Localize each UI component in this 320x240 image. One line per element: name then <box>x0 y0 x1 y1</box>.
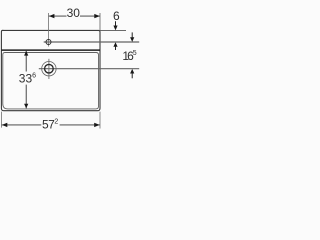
dimension 30 left arrow <box>49 14 55 18</box>
dimension 6 top arrow (down) <box>113 26 117 31</box>
extension line right of dim 30 <box>99 13 101 30</box>
drain inner circle (thick) <box>45 64 54 73</box>
dimension 57.2 line segments <box>2 124 42 126</box>
svg-text:30: 30 <box>67 6 81 20</box>
dimension 33.6 line upper segment <box>25 51 27 72</box>
washbasin outer outline <box>1 30 100 110</box>
drain leader line <box>39 68 139 70</box>
dimension 16.5 top arrow (down) <box>130 37 134 42</box>
dimension 30 line segments <box>49 15 67 17</box>
dimension 57.2 right arrow <box>94 123 100 127</box>
dimension 33.6 top arrow (up) <box>24 51 28 56</box>
tap hole circle <box>46 40 51 45</box>
top edge extension line (right) <box>100 29 126 31</box>
dimension 57.2 left arrow <box>2 123 8 127</box>
tap hole leader line <box>44 41 140 43</box>
dim 57.2 extension line left <box>1 112 3 128</box>
dimension 16.5 bottom arrow (up) <box>130 69 134 74</box>
dimension 6 bottom arrow (up) <box>113 42 117 47</box>
tap deck front edge (thick line) <box>1 49 100 51</box>
tap hole centerline / extension line left of dim 30 <box>48 13 50 47</box>
drain outer circle <box>42 61 56 75</box>
dim 57.2 extension line right <box>99 112 101 129</box>
dimension 33.6 bottom arrow (down) <box>24 104 28 109</box>
bowl inner contour <box>3 53 99 109</box>
dimension 33.6 line lower segment <box>25 85 27 109</box>
drain centerline vertical <box>48 59 50 79</box>
dimension 30 right arrow <box>94 14 100 18</box>
svg-text:6: 6 <box>113 9 120 23</box>
